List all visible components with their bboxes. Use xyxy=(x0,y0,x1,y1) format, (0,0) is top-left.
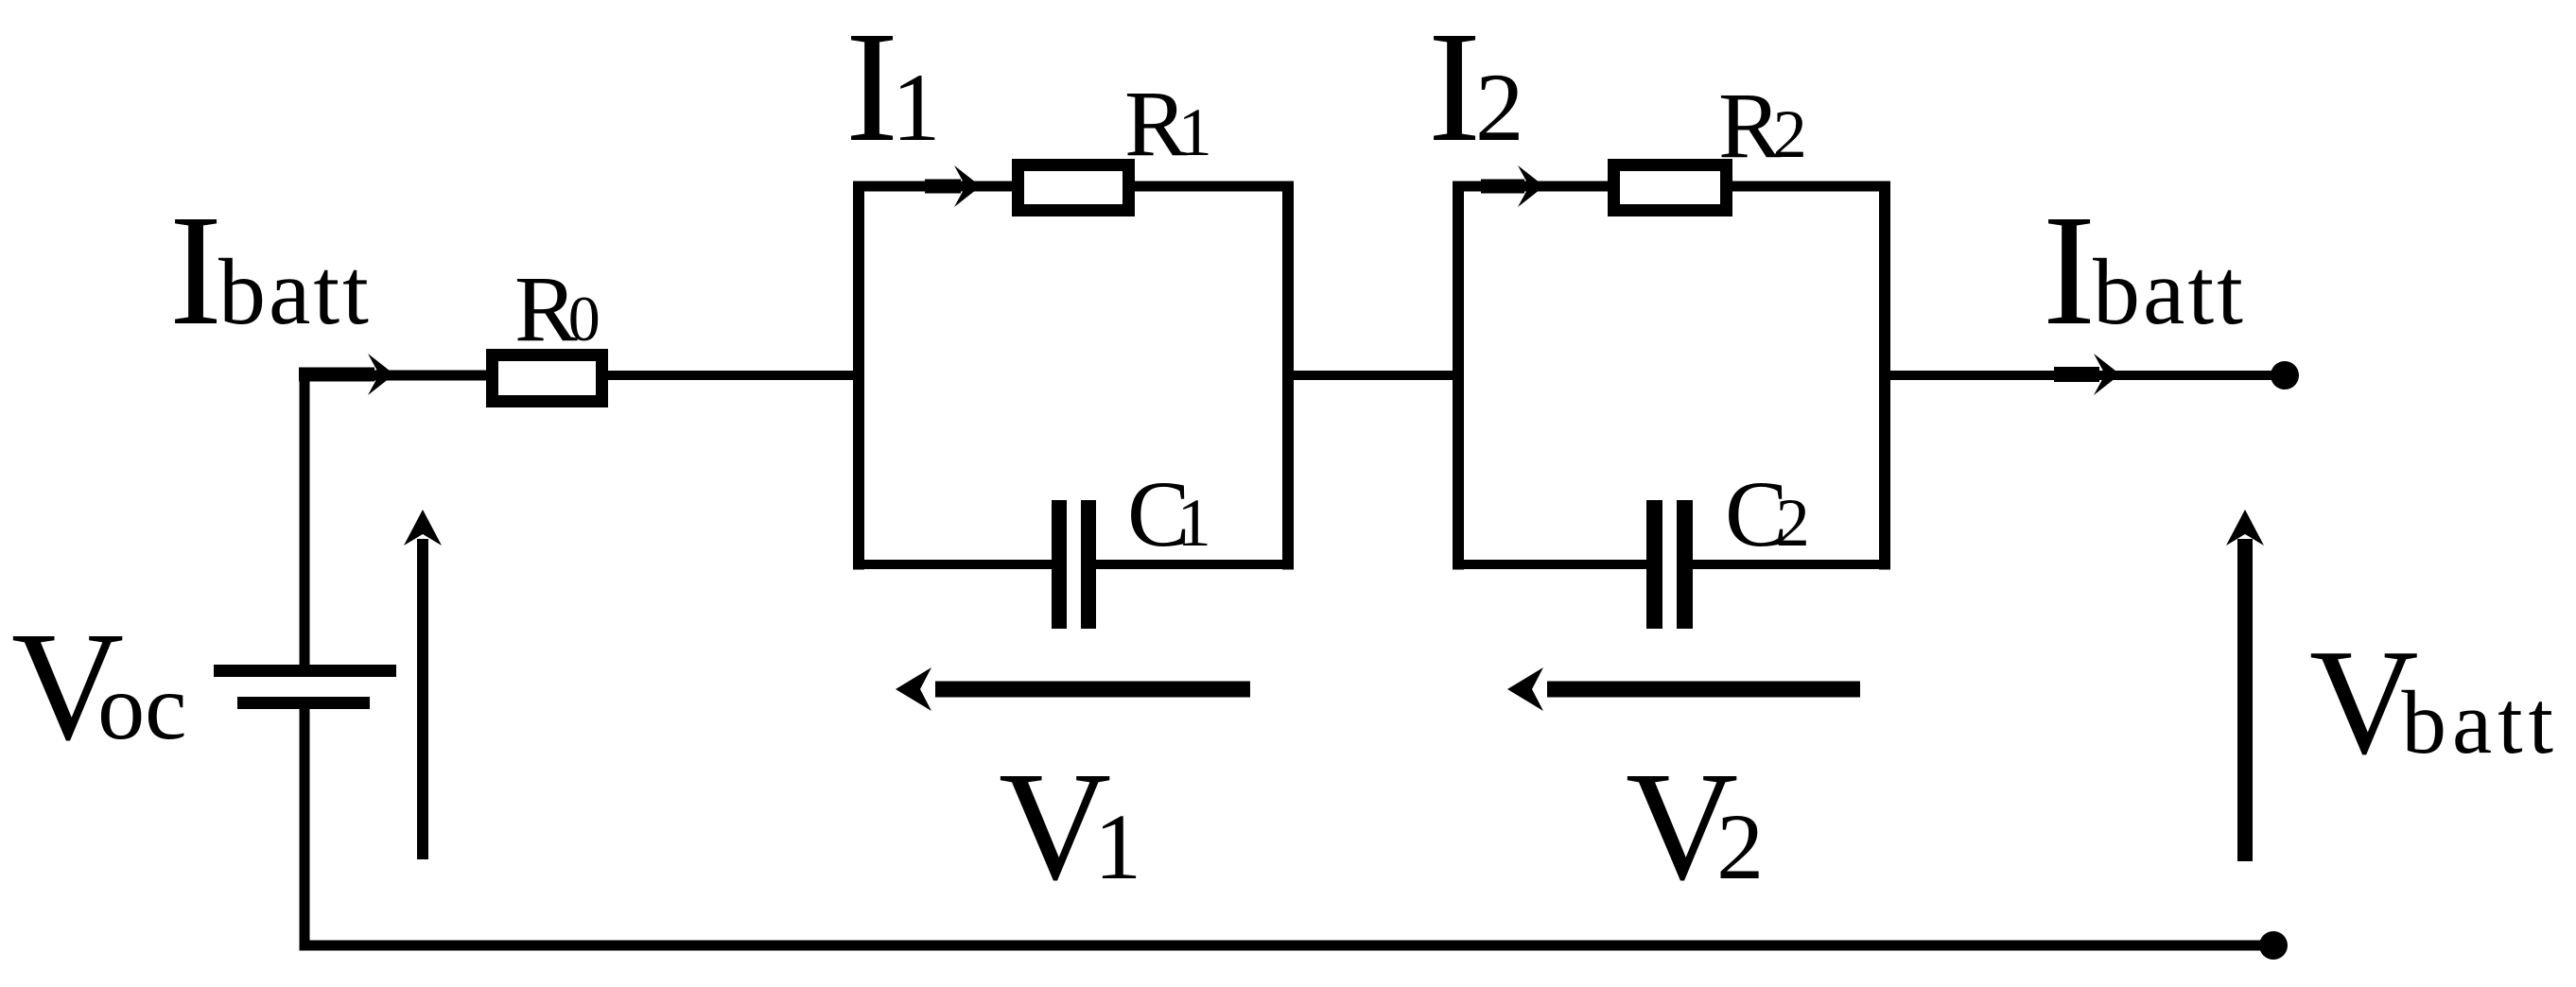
arrow V1 pointing left xyxy=(896,667,1250,711)
resistor R2 xyxy=(1614,165,1727,211)
node: RC2 left vertical xyxy=(1453,182,1464,570)
wire RC2 to output terminal xyxy=(1885,371,2285,380)
node: RC1 right vertical xyxy=(1282,182,1294,570)
wire RC1 to RC2 xyxy=(1288,371,1464,380)
wire RC2 top branch xyxy=(1453,182,1890,192)
wire bottom return xyxy=(305,704,2273,945)
battery Voc plate long xyxy=(214,665,396,677)
node: RC1 left vertical xyxy=(853,182,864,570)
capacitor C1 xyxy=(1052,500,1096,629)
arrow Ibatt left xyxy=(299,354,394,395)
node positive terminal dot xyxy=(2271,361,2299,390)
wire R0 to RC1 xyxy=(608,371,864,380)
wire RC1 bottom branch left xyxy=(853,560,1052,569)
arrow I2 xyxy=(1481,165,1544,207)
wire RC2 bottom branch left xyxy=(1453,560,1646,569)
arrow battery current up xyxy=(404,510,442,859)
battery Voc plate short xyxy=(237,697,370,709)
arrow I1 xyxy=(925,165,981,207)
capacitor C2 xyxy=(1646,500,1693,629)
arrow Ibatt right xyxy=(2054,354,2120,395)
node negative terminal dot xyxy=(2259,931,2288,960)
wire RC1 bottom branch right xyxy=(1096,560,1294,569)
wire RC1 top branch xyxy=(853,182,1294,192)
resistor R1 xyxy=(1018,165,1129,211)
node: RC2 right vertical xyxy=(1879,182,1890,570)
arrow V2 pointing left xyxy=(1507,667,1860,711)
resistor R0 xyxy=(493,355,602,402)
wire top-left from battery + up and right to R0 xyxy=(305,375,486,669)
arrow Vbatt up xyxy=(2226,510,2264,861)
wire RC2 bottom branch right xyxy=(1693,560,1890,569)
